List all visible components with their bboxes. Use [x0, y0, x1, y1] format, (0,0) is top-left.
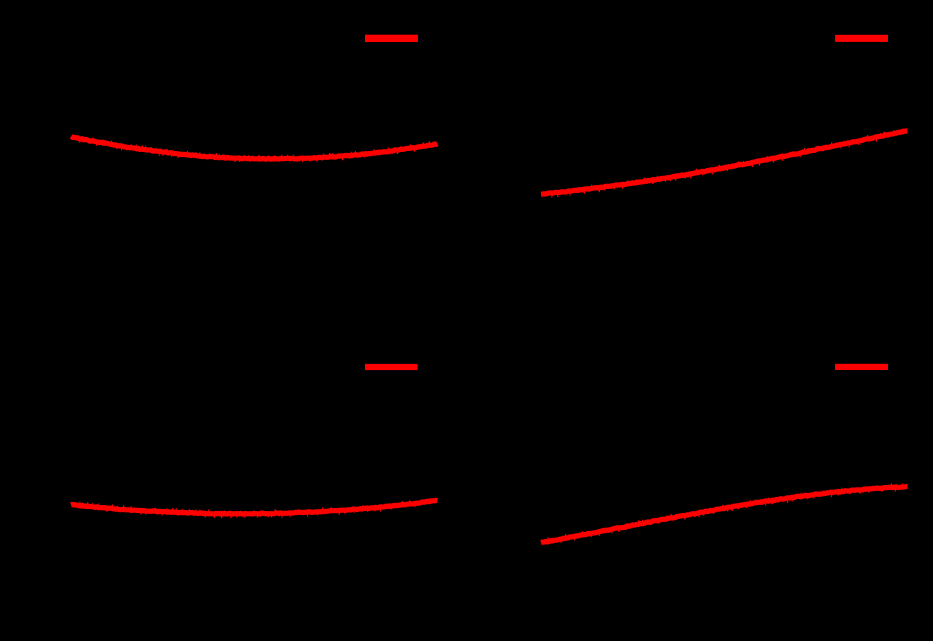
data curve (top-left subplot) — [71, 137, 437, 163]
legend line sample (top-right subplot) — [835, 35, 888, 42]
data curve (bottom-right subplot) — [541, 483, 907, 542]
data curve (bottom-left subplot) — [71, 498, 437, 518]
data curve (top-right subplot) — [541, 129, 907, 198]
legend line sample (top-left subplot) — [365, 35, 418, 42]
legend line sample (bottom-left subplot) — [365, 364, 418, 370]
legend line sample (bottom-right subplot) — [835, 364, 888, 370]
